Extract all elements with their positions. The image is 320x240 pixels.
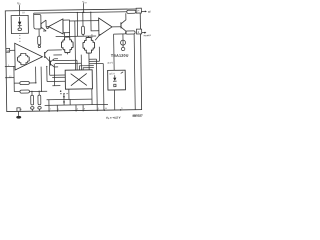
wire top bus y=12.4 xyxy=(34,12,127,13)
pin GND square bottom-left xyxy=(17,108,20,111)
wire mesh lower horizontals xyxy=(52,76,65,78)
inverter bubble at T2 tip xyxy=(47,27,49,29)
transistor Q1 xyxy=(41,20,46,31)
current source CS xyxy=(120,34,125,51)
svg-text:6: 6 xyxy=(21,109,23,111)
block rect after T2 xyxy=(63,20,70,33)
wire vertical x63.4 with junction blobs xyxy=(63,93,65,105)
limiter amp triangle T2 (points left) xyxy=(48,19,63,34)
wire B2 bottom down xyxy=(113,90,115,110)
resistor R2 horizontal right xyxy=(126,31,136,34)
wire bottom bus line B xyxy=(45,103,108,106)
dashed wire below B1 xyxy=(19,35,21,42)
dashed wire left of X-box bottom xyxy=(60,93,68,95)
outer IC boundary box xyxy=(5,9,141,112)
wire vertical x49.5 xyxy=(48,57,50,76)
wire T2 rect to T3 upper xyxy=(69,20,98,22)
input amp triangle T1 xyxy=(15,43,43,70)
svg-text:2: 2 xyxy=(98,108,99,110)
capacitor C2 vertical xyxy=(38,91,42,111)
svg-text:11: 11 xyxy=(105,108,107,110)
wire emitter bus y34.6 xyxy=(114,33,126,35)
wire vertical x99.5 xyxy=(98,47,100,61)
svg-text:TBA120U: TBA120U xyxy=(111,54,129,58)
current source / diode symbol inside B1 xyxy=(18,17,22,31)
wire af output arrow top xyxy=(141,10,145,12)
wire Q4 collector to CL1 xyxy=(48,49,62,51)
wire left join of Ra Rb xyxy=(13,66,15,91)
wire x134.5 down right side xyxy=(134,34,135,110)
transistor Q1 frame wire xyxy=(34,13,41,29)
wire vertical x82.4 xyxy=(82,105,84,111)
wire bus drop x91.5 to T3 lower input xyxy=(91,12,99,31)
wire mesh left of mixer xyxy=(53,54,61,56)
svg-text:VP = +4,5 V: VP = +4,5 V xyxy=(106,116,121,121)
wire bottom bus line A xyxy=(47,98,92,101)
wire T2 tip to Q1 xyxy=(46,20,48,27)
wire mesh verticals to mixer top xyxy=(74,21,77,70)
svg-text:5: 5 xyxy=(121,108,122,110)
dashed wire below x91.5 xyxy=(91,34,93,37)
svg-text:1: 1 xyxy=(58,109,59,111)
svg-text:7: 7 xyxy=(50,109,51,111)
svg-text:squelch: squelch xyxy=(143,35,151,37)
wire vertical x41 xyxy=(40,67,42,92)
wire vertical x48.3 xyxy=(48,100,50,111)
wire bus drop x78 xyxy=(76,12,78,36)
wire vertical x96.5 xyxy=(95,59,98,110)
svg-text:3: 3 xyxy=(84,108,85,110)
wire diagonal CL2 to T3 xyxy=(95,34,100,40)
capacitor C1 vertical xyxy=(30,91,34,111)
bias regulator box B1 xyxy=(11,15,28,33)
transistor cloud CL2 xyxy=(83,37,95,53)
wire pin14 to T1 input xyxy=(10,49,15,51)
mixer X strokes xyxy=(71,73,87,85)
pin 8 square right xyxy=(136,29,141,34)
wire vertical x91.4 xyxy=(91,89,93,105)
wire cloud top bus xyxy=(56,35,96,38)
wire bridges right of CL2 stem xyxy=(89,58,96,60)
pin 12 tick left xyxy=(5,77,14,79)
pin 14 square right xyxy=(136,8,141,13)
wire CL2 stems xyxy=(88,36,90,70)
svg-text:3,5 V: 3,5 V xyxy=(109,72,115,75)
wire Vref drop to bus xyxy=(83,3,85,12)
mixer X-box xyxy=(65,70,92,89)
wire vertical x69.5 xyxy=(69,99,71,104)
wire Vp down into regulator box xyxy=(18,5,20,15)
zener reference box B2 xyxy=(108,70,126,90)
svg-text:Vref: Vref xyxy=(82,0,87,4)
wire B2 top up xyxy=(113,34,116,70)
resistor R4 vertical xyxy=(38,29,41,48)
transistor Q4 at T1 output xyxy=(45,50,49,60)
svg-text:af: af xyxy=(148,10,151,14)
wire vertical x35.5 xyxy=(35,67,37,83)
transistor cloud CL0 inside T1 xyxy=(17,53,29,65)
wire X-box input lower xyxy=(47,80,65,82)
zener diode inside B2 xyxy=(113,75,117,86)
resistor Ra horizontal xyxy=(14,81,36,84)
transistor Q3 xyxy=(50,59,54,67)
wire vertical x56.6 xyxy=(56,105,58,111)
wire Q4 emitter to Q3 xyxy=(48,60,50,62)
svg-text:3,4 V: 3,4 V xyxy=(107,62,113,65)
svg-text:10: 10 xyxy=(22,12,25,14)
svg-text:8B5027: 8B5027 xyxy=(132,114,143,118)
svg-text:4: 4 xyxy=(77,108,78,110)
wire bridges over X-box top xyxy=(79,66,93,70)
pin 1 tick left xyxy=(5,65,15,67)
bottom border pin ticks with labels xyxy=(49,108,122,112)
wire X-box input upper xyxy=(50,74,65,76)
wire CL1 stems xyxy=(66,36,68,54)
wire stub rect to clouds xyxy=(65,32,70,36)
transistor cloud CL1 xyxy=(61,37,73,53)
resistor R3 vertical with bus drop xyxy=(81,12,84,37)
resistor Rb horizontal xyxy=(14,90,47,93)
ground symbol xyxy=(16,111,21,118)
resistor R1 horizontal top-right xyxy=(127,10,136,13)
pin 14 square left xyxy=(6,49,10,53)
transistor Q2 xyxy=(112,13,126,34)
junction dot left of X-box xyxy=(60,90,62,92)
wire vertical x46.7 xyxy=(46,66,48,81)
wire X-box bottom drops xyxy=(68,89,70,99)
wire vertical x75.3 xyxy=(75,105,77,111)
wire vertical x103.2 xyxy=(102,64,105,110)
output amp triangle T3 xyxy=(99,18,112,36)
wire af output arrow bottom xyxy=(142,32,145,34)
